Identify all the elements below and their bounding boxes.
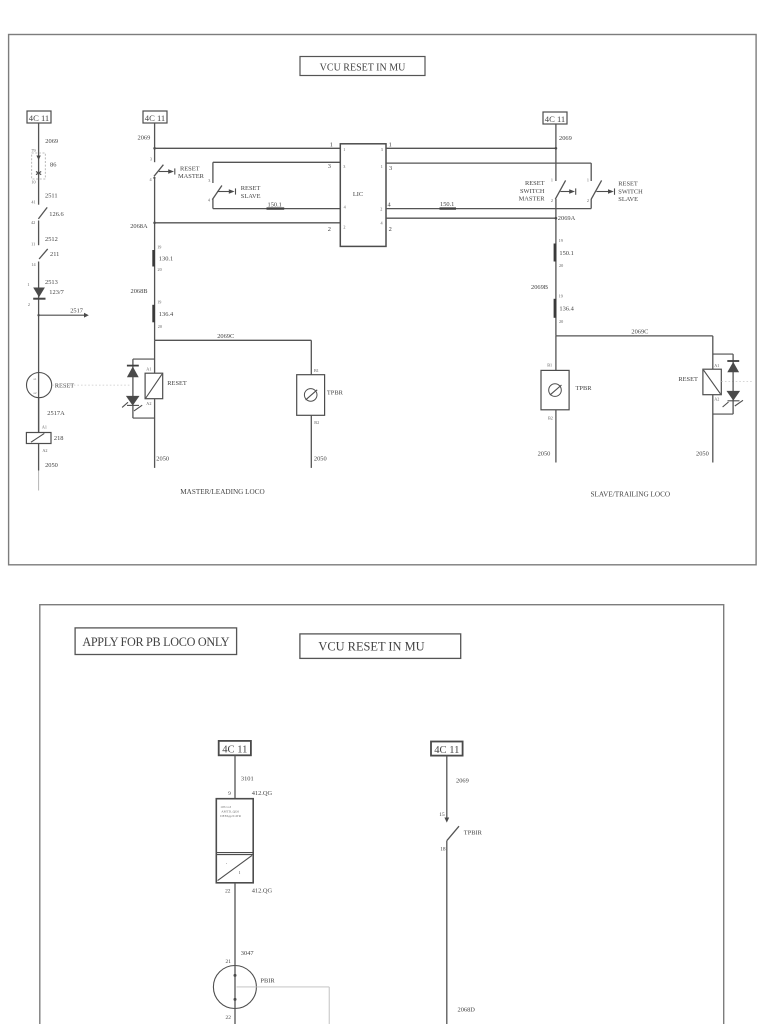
wire 2517A — [39, 398, 65, 433]
svg-text:RESET: RESET — [241, 185, 261, 192]
svg-text:4C 11: 4C 11 — [145, 113, 165, 123]
wire 2511 — [31, 192, 57, 204]
svg-text:MASTER: MASTER — [178, 173, 205, 180]
svg-text:150.1: 150.1 — [268, 201, 282, 208]
svg-text:RESET: RESET — [180, 165, 200, 172]
wire 2050 (master) — [156, 415, 326, 468]
svg-text:412.QG: 412.QG — [252, 790, 273, 797]
svg-text:4C 11: 4C 11 — [545, 114, 565, 124]
wire to LIC pin 1 (master) — [155, 142, 341, 149]
svg-text:2: 2 — [587, 198, 589, 203]
wire 3047 — [225, 883, 272, 966]
svg-text:2050: 2050 — [696, 450, 709, 457]
svg-text:3101: 3101 — [241, 776, 254, 783]
svg-text:SLAVE: SLAVE — [241, 193, 261, 200]
svg-text:2: 2 — [380, 206, 382, 211]
svg-text:B2: B2 — [548, 416, 553, 421]
switch 211 — [31, 249, 59, 433]
wire to LIC pin 4 with contact 150.1 (master) — [213, 201, 340, 208]
suppressor diodes (slave) — [713, 354, 743, 414]
wire to LIC pin 3 — [213, 162, 340, 183]
svg-text:3: 3 — [328, 163, 331, 170]
svg-text:1: 1 — [343, 147, 345, 152]
svg-text:4: 4 — [388, 202, 392, 209]
svg-text:150.1: 150.1 — [559, 250, 573, 257]
node 4C11 (left feeder) — [27, 111, 51, 123]
svg-text:A2: A2 — [714, 397, 719, 402]
svg-text:21: 21 — [226, 959, 232, 965]
svg-text:19: 19 — [559, 293, 563, 298]
svg-text:2: 2 — [28, 302, 30, 307]
svg-text:RESET: RESET — [525, 180, 545, 187]
wire LIC right pin 2 with contact 150.1 (slave link) — [386, 201, 591, 208]
svg-text:11: 11 — [31, 242, 35, 247]
title box VCU RESET IN MU (sheet 2) — [300, 634, 461, 659]
note box APPLY FOR PB LOCO ONLY — [75, 628, 237, 655]
svg-text:TPBIR: TPBIR — [464, 830, 483, 837]
svg-text:B1: B1 — [314, 368, 319, 373]
svg-text:3: 3 — [150, 157, 152, 162]
svg-text:2068D: 2068D — [458, 1006, 476, 1013]
svg-text:2069: 2069 — [559, 135, 572, 142]
svg-text:412.QG: 412.QG — [252, 888, 273, 895]
svg-text:SWITCH: SWITCH — [520, 188, 545, 195]
wire 2068A to LIC pin 2 — [130, 222, 340, 234]
svg-text:RESET: RESET — [618, 181, 638, 188]
MU connector U1 LIC — [340, 144, 386, 247]
svg-text:105/1o3: 105/1o3 — [220, 805, 231, 809]
svg-text:3: 3 — [208, 178, 210, 183]
coil TPBR (slave) — [538, 336, 593, 463]
svg-text:123/7: 123/7 — [49, 289, 64, 296]
svg-text:TPBR: TPBR — [576, 385, 593, 392]
lamp RESET — [26, 373, 131, 398]
tap wire 2517 — [37, 308, 88, 318]
svg-text:14: 14 — [31, 262, 36, 267]
svg-text:DEFApp'd/4TR: DEFApp'd/4TR — [220, 814, 241, 818]
suppressor diodes (master) — [122, 359, 155, 418]
svg-text:a1: a1 — [33, 377, 36, 381]
svg-text:86: 86 — [50, 162, 56, 169]
node 4C11 (PB loco right) — [431, 742, 463, 757]
svg-text:20: 20 — [559, 263, 563, 268]
relay 218 — [26, 433, 63, 454]
svg-text:79: 79 — [31, 148, 35, 153]
svg-text:4: 4 — [208, 197, 211, 202]
svg-text:l: l — [239, 870, 241, 875]
node 4C11 (slave loco) — [543, 112, 567, 124]
node 4C11 (PB loco left) — [219, 741, 251, 756]
svg-text:APPLY FOR PB LOCO ONLY: APPLY FOR PB LOCO ONLY — [82, 635, 229, 649]
svg-text:a2: a2 — [33, 391, 36, 395]
wire 2069 (PB loco) — [439, 756, 468, 818]
svg-text:SLAVE/TRAILING LOCO: SLAVE/TRAILING LOCO — [591, 491, 671, 499]
svg-text:A2: A2 — [42, 448, 47, 453]
pushbutton RESET SLAVE — [208, 178, 261, 209]
svg-text:22: 22 — [226, 1015, 232, 1021]
svg-text:42: 42 — [31, 220, 35, 225]
svg-text:1: 1 — [330, 142, 333, 149]
svg-text:10: 10 — [31, 180, 35, 185]
svg-text:TPBR: TPBR — [327, 390, 344, 397]
svg-text:MASTER/LEADING LOCO: MASTER/LEADING LOCO — [180, 488, 264, 496]
svg-text:2: 2 — [328, 226, 331, 233]
contact 130.1 (master) — [154, 245, 174, 272]
wire 2069A from LIC right pin 4 — [386, 215, 576, 233]
svg-text:VCU RESET IN MU: VCU RESET IN MU — [320, 63, 406, 74]
svg-text:2517A: 2517A — [47, 410, 65, 417]
pushbutton RESET SWITCH SLAVE (slave loco) — [587, 177, 643, 208]
switch 126.6 — [31, 207, 64, 245]
svg-text:2069A: 2069A — [558, 215, 576, 222]
svg-text:2050: 2050 — [156, 455, 169, 462]
svg-text:2511: 2511 — [45, 192, 58, 199]
wire 2068D — [447, 841, 475, 1024]
svg-text:': ' — [226, 862, 227, 867]
svg-text:136.4: 136.4 — [559, 305, 574, 312]
module 412.QG — [216, 799, 253, 883]
svg-text:1: 1 — [27, 282, 29, 287]
svg-text:9: 9 — [228, 791, 231, 797]
svg-text:2: 2 — [343, 225, 345, 230]
svg-text:4C 11: 4C 11 — [222, 745, 247, 756]
svg-text:AMTD_QG6: AMTD_QG6 — [221, 810, 239, 814]
svg-text:3: 3 — [389, 165, 392, 172]
pushbutton RESET MASTER — [150, 157, 205, 341]
wire 2513 — [27, 279, 57, 287]
coil TPBR (master) — [297, 368, 344, 425]
svg-text:2517: 2517 — [70, 308, 84, 315]
wire 2069C (master) — [155, 333, 312, 375]
svg-text:4C 11: 4C 11 — [434, 745, 459, 756]
svg-text:2: 2 — [389, 226, 392, 233]
svg-text:A1: A1 — [714, 363, 719, 368]
svg-text:1: 1 — [381, 164, 383, 169]
wire 2069C (slave) — [556, 329, 713, 370]
coil RESET (master) — [145, 340, 187, 468]
title box VCU RESET IN MU (sheet 1) — [300, 57, 425, 76]
svg-text:22: 22 — [225, 889, 231, 895]
wire LIC right pin 3 to slave bus — [386, 142, 556, 149]
node 4C11 (master loco) — [143, 111, 167, 123]
svg-text:PBIR: PBIR — [260, 977, 275, 984]
svg-text:4: 4 — [381, 221, 384, 226]
contact 150.1 (slave) — [555, 238, 574, 268]
svg-text:1: 1 — [587, 177, 589, 182]
svg-text:2050: 2050 — [314, 455, 327, 462]
pushbutton RESET SWITCH MASTER (slave loco) — [519, 177, 576, 336]
svg-text:2069B: 2069B — [531, 284, 548, 291]
svg-text:41: 41 — [31, 200, 35, 205]
wire 2512 — [31, 236, 58, 247]
wire 2068B (master) — [131, 288, 148, 295]
svg-text:20: 20 — [158, 267, 162, 272]
svg-text:2068B: 2068B — [131, 288, 148, 295]
svg-text:2050: 2050 — [45, 462, 58, 469]
node 2069A junction — [555, 217, 558, 220]
svg-text:2512: 2512 — [45, 236, 58, 243]
wire 2050 (left) — [39, 444, 58, 491]
svg-text:2069: 2069 — [456, 777, 469, 784]
linkage wire from PBIR — [237, 987, 330, 1024]
svg-text:2069: 2069 — [45, 138, 58, 145]
coil RESET (slave) — [678, 363, 753, 463]
svg-text:211: 211 — [50, 251, 59, 258]
svg-text:2050: 2050 — [538, 450, 551, 457]
wire 2069 (left) — [31, 123, 58, 205]
svg-text:19: 19 — [559, 238, 563, 243]
contact 136.4 (slave) — [555, 293, 575, 324]
svg-text:2: 2 — [551, 198, 553, 203]
svg-text:2069C: 2069C — [631, 329, 648, 336]
svg-text:4: 4 — [150, 177, 153, 182]
svg-text:4: 4 — [344, 204, 347, 209]
svg-text:18: 18 — [440, 847, 446, 853]
svg-text:RESET: RESET — [55, 382, 75, 389]
svg-text:1: 1 — [551, 177, 553, 182]
svg-text:A1: A1 — [146, 367, 151, 372]
svg-text:A2: A2 — [146, 401, 151, 406]
svg-text:2069C: 2069C — [217, 333, 234, 340]
svg-text:19: 19 — [157, 299, 161, 304]
wire 3101 — [228, 755, 272, 798]
svg-text:RESET: RESET — [678, 376, 698, 383]
contact 136.4 (master) — [154, 299, 174, 328]
svg-text:20: 20 — [559, 319, 563, 324]
svg-text:2513: 2513 — [45, 279, 58, 286]
svg-text:4C 11: 4C 11 — [29, 113, 49, 123]
svg-text:130.1: 130.1 — [159, 256, 173, 263]
svg-text:126.6: 126.6 — [49, 211, 63, 218]
svg-text:B1: B1 — [547, 362, 552, 367]
wire 2069 (master) — [138, 123, 156, 162]
svg-text:150.1: 150.1 — [440, 201, 454, 208]
svg-text:SWITCH: SWITCH — [618, 188, 643, 195]
pushbutton PBIR — [213, 966, 275, 1024]
diode 123/7 — [28, 288, 65, 308]
wire LIC right pin 1 to slave pushbutton branch — [386, 163, 591, 181]
svg-text:3: 3 — [381, 147, 383, 152]
wire 2069 (slave) — [555, 124, 572, 181]
svg-text:15: 15 — [439, 812, 445, 818]
svg-text:136.4: 136.4 — [159, 311, 174, 318]
svg-text:19: 19 — [157, 245, 161, 250]
svg-text:MASTER: MASTER — [519, 195, 546, 202]
svg-text:LIC: LIC — [353, 191, 363, 198]
svg-text:218: 218 — [54, 435, 64, 442]
switch TPBIR — [440, 818, 482, 853]
svg-text:3047: 3047 — [241, 950, 255, 957]
svg-text:A1: A1 — [42, 425, 47, 430]
svg-text:20: 20 — [158, 324, 162, 329]
fuse 86 — [31, 153, 56, 185]
svg-text:RESET: RESET — [167, 380, 187, 387]
svg-text:2069: 2069 — [138, 135, 151, 142]
svg-text:2068A: 2068A — [130, 223, 148, 230]
svg-text:1: 1 — [389, 142, 392, 149]
svg-text:3: 3 — [343, 164, 345, 169]
svg-text:VCU RESET IN MU: VCU RESET IN MU — [318, 640, 424, 654]
svg-text:SLAVE: SLAVE — [618, 196, 638, 203]
svg-text:B2: B2 — [314, 420, 319, 425]
